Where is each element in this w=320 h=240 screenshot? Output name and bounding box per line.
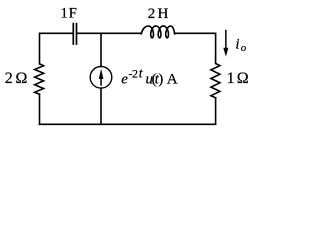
svg-text:): ) bbox=[158, 72, 163, 88]
inductor L1 coil bbox=[141, 26, 174, 38]
svg-text:2: 2 bbox=[5, 70, 13, 87]
wire top-left horizontal bbox=[40, 33, 73, 64]
svg-text:2: 2 bbox=[148, 6, 156, 22]
current source I1 circle bbox=[90, 67, 112, 89]
wire inductor to right corner, down to resistor bbox=[175, 33, 216, 63]
svg-text:1: 1 bbox=[60, 6, 68, 22]
svg-text:i: i bbox=[235, 36, 239, 52]
svg-text:2: 2 bbox=[132, 67, 138, 81]
svg-text:t: t bbox=[139, 66, 144, 81]
wire bottom middle source lead bbox=[100, 88, 102, 124]
resistor R1 (2 ohm) zigzag bbox=[35, 64, 44, 94]
svg-text:A: A bbox=[167, 72, 178, 88]
resistor R2 (1 ohm) zigzag bbox=[211, 64, 220, 98]
svg-text:Ω: Ω bbox=[237, 70, 249, 87]
svg-text:o: o bbox=[241, 42, 247, 54]
svg-text:Ω: Ω bbox=[16, 70, 28, 87]
wire left resistor to bottom corner bbox=[39, 94, 41, 124]
svg-text:e: e bbox=[121, 72, 128, 88]
current source I1 arrow bbox=[99, 69, 104, 86]
io arrow bbox=[223, 30, 228, 57]
capacitor C1 plate right bbox=[76, 24, 78, 44]
svg-text:H: H bbox=[158, 6, 169, 22]
capacitor C1 plate left bbox=[72, 24, 74, 44]
svg-text:1: 1 bbox=[227, 70, 235, 87]
wire right resistor to bottom corner bbox=[40, 98, 216, 125]
node T middle vertical wire to source bbox=[100, 33, 102, 66]
wire capacitor to inductor bbox=[77, 32, 141, 34]
svg-text:F: F bbox=[69, 6, 77, 22]
